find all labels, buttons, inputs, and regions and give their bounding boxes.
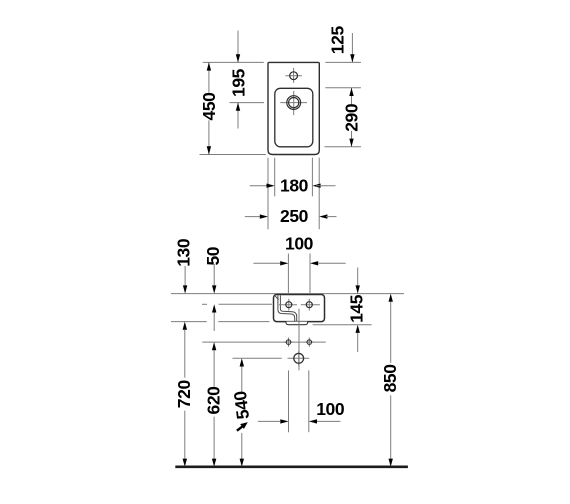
dimension 180 (bowl width)	[250, 176, 336, 196]
waste outlet cross	[288, 351, 310, 366]
dimension 50 (top to tap hole)	[203, 246, 223, 331]
extension line: tap hole level	[202, 303, 272, 305]
dimension 290 (bowl depth)	[342, 88, 362, 147]
dimension 130 (basin height, upper arrow)	[174, 238, 194, 293]
dimension 125 (tap hole offset)	[327, 26, 354, 63]
extension line: bowl left edge down (for 180)	[274, 158, 276, 197]
svg-text:540: 540	[230, 390, 253, 421]
extension line: right fixing hole down (for 100 bottom)	[308, 370, 310, 432]
front view: siphon cover tab	[286, 322, 308, 325]
waste outlet circle	[294, 353, 304, 363]
extension line: plan outer left edge down (for 250)	[267, 158, 269, 230]
dimension 540 (floor to waste outlet)	[230, 358, 253, 467]
svg-text:195: 195	[229, 68, 249, 97]
fixing hole centre crosses	[284, 338, 314, 347]
svg-text:290: 290	[342, 103, 362, 132]
dimension 450 (plan height)	[199, 62, 219, 154]
extension line: front view basin top level	[171, 293, 404, 295]
extension line: plan outer right edge down (for 250)	[318, 158, 320, 230]
extension line: basin bottom level (left)	[171, 321, 270, 323]
dimension 195 (rim top to drain centre)	[229, 31, 249, 129]
extension line: bowl right edge down (for 180)	[311, 158, 313, 197]
plan view: tap hole	[290, 72, 298, 80]
plan view: drain centre cross	[280, 91, 307, 115]
extension line: plan rim bottom edge	[200, 154, 266, 156]
svg-text:125: 125	[327, 26, 347, 55]
dimension 620 (floor to fixing holes)	[204, 342, 224, 467]
front view: right tap hole	[306, 302, 312, 308]
adjustability arrow beside 540	[237, 422, 248, 431]
plan view: tap hole centre cross	[285, 68, 302, 83]
svg-text:850: 850	[380, 364, 400, 393]
extension line: siphon cover bottom level (right, for 145)	[313, 324, 372, 326]
svg-text:450: 450	[199, 92, 219, 121]
front view: tap hole centre crosses	[279, 299, 320, 311]
extension line: waste outlet level (for 540)	[233, 357, 282, 359]
extension line: bowl bottom edge (right, for 290)	[325, 146, 362, 148]
front view: basin body	[274, 295, 325, 322]
front view: vertical centre line	[298, 309, 300, 371]
svg-text:180: 180	[280, 176, 309, 196]
floor line	[175, 465, 408, 468]
extension line: left tap hole up (for 100 top)	[287, 254, 289, 294]
svg-text:720: 720	[174, 380, 194, 409]
dimension 720 (floor to basin bottom)	[174, 322, 194, 467]
dimension 850 (floor to rim)	[380, 294, 400, 467]
extension line: bowl top edge (right, for 290)	[325, 87, 361, 89]
left fixing hole	[286, 340, 291, 345]
svg-text:250: 250	[280, 206, 309, 226]
svg-text:130: 130	[174, 238, 194, 267]
extension line: drain centre (left, for 195)	[230, 102, 265, 104]
dimension 100 bottom (fixing hole spacing)	[258, 399, 345, 424]
svg-text:50: 50	[203, 246, 223, 265]
plan view: outer rim of basin	[268, 62, 319, 154]
svg-text:100: 100	[316, 399, 345, 419]
extension line: right tap hole up (for 100 top)	[309, 254, 311, 294]
dimension 250 (plan width)	[245, 206, 337, 226]
svg-text:100: 100	[285, 234, 314, 254]
svg-text:145: 145	[347, 294, 367, 323]
extension line: fixing hole level (for 620)	[202, 341, 325, 343]
dimension 145 (basin height right)	[347, 268, 367, 353]
front view: left tap hole	[286, 302, 292, 308]
front view: section cut-away contour	[274, 295, 296, 321]
dimension 100 top (tap hole spacing)	[254, 234, 346, 266]
plan view: inner bowl	[275, 88, 313, 147]
extension line: left fixing hole down (for 100 bottom)	[288, 370, 290, 432]
right fixing hole	[307, 340, 312, 345]
plan view: drain outlet (double circle)	[287, 96, 301, 110]
svg-text:620: 620	[204, 386, 224, 415]
extension line: plan rim top edge (left & right)	[203, 61, 361, 63]
